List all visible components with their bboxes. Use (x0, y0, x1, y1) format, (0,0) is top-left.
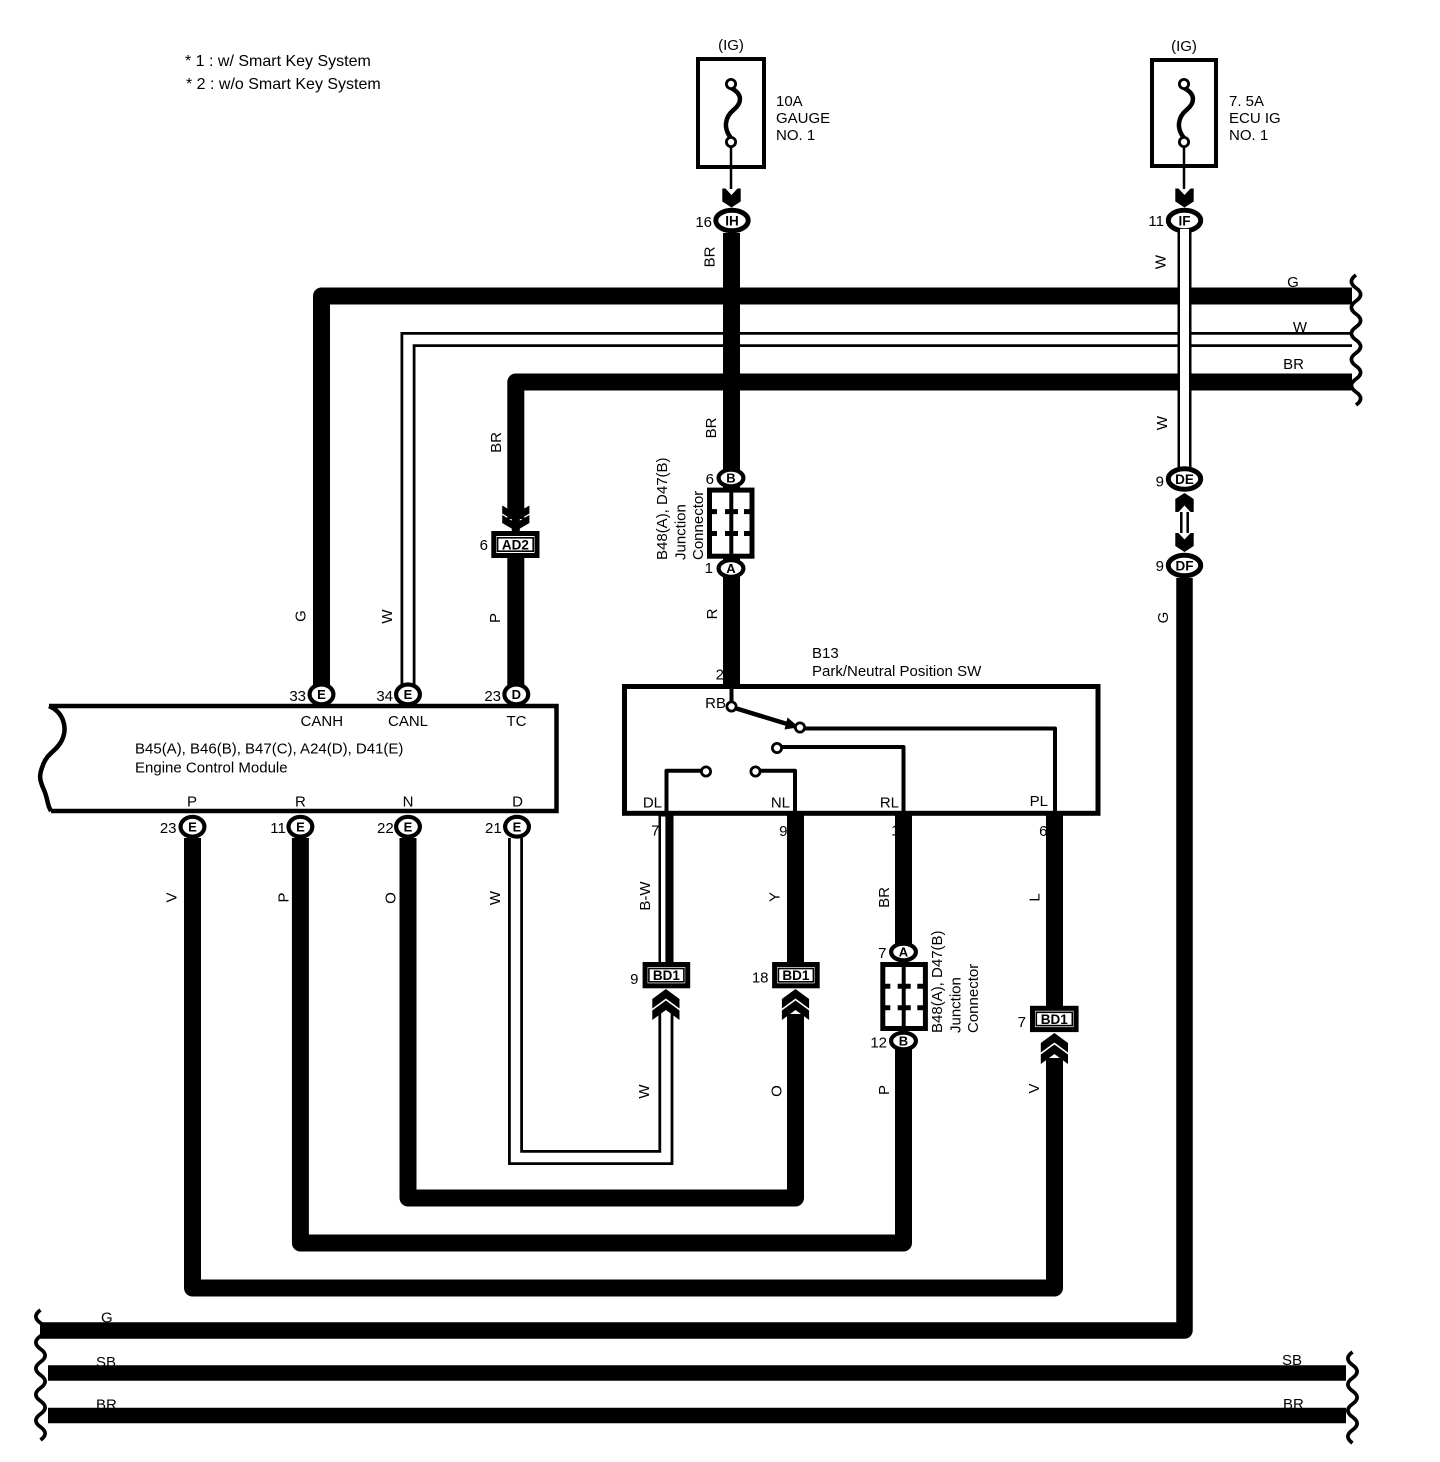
svg-text:34: 34 (376, 688, 393, 705)
svg-text:RB: RB (705, 695, 726, 712)
svg-text:7: 7 (651, 823, 659, 840)
svg-text:O: O (383, 892, 400, 904)
svg-text:G: G (1155, 612, 1172, 624)
svg-text:9: 9 (779, 823, 787, 840)
svg-text:1: 1 (705, 560, 713, 577)
svg-text:7. 5A: 7. 5A (1229, 93, 1264, 110)
wire G bus (CANH to right edge) (322, 296, 1353, 694)
wire W from IF to DE outer (1178, 231, 1192, 469)
svg-text:11: 11 (1148, 213, 1164, 230)
bus BR bottom (48, 1408, 1346, 1424)
svg-text:NL: NL (771, 795, 790, 812)
svg-text:11: 11 (270, 820, 286, 837)
svg-text:21: 21 (485, 820, 502, 837)
svg-text:9: 9 (630, 971, 638, 988)
switch contact DL (701, 767, 710, 776)
wire W bus inner white (408, 340, 1354, 693)
connector BD1 (pin 9) (645, 965, 688, 986)
wire W (pin21 to BD1) outer (516, 838, 666, 1158)
svg-text:NO. 1: NO. 1 (776, 127, 815, 144)
svg-text:E: E (404, 819, 413, 834)
arrow into BD1 (pin 9) (652, 989, 679, 1009)
connector AD2 (494, 534, 537, 556)
arrow into IH (722, 189, 740, 208)
svg-text:18: 18 (752, 970, 769, 987)
arrow into BD1 (pin 7) (1041, 1033, 1068, 1053)
svg-text:(IG): (IG) (718, 37, 744, 54)
PNP internal wire to PL (802, 729, 1055, 812)
svg-text:V: V (164, 892, 181, 902)
junction connector J1 pin A oval (719, 560, 744, 577)
svg-text:G: G (101, 1310, 113, 1327)
pin 22 E oval (396, 817, 420, 837)
svg-text:6: 6 (480, 537, 488, 554)
svg-text:Junction: Junction (673, 504, 690, 560)
svg-text:BD1: BD1 (782, 968, 809, 983)
switch blade RB (732, 707, 798, 727)
svg-text:B48(A), D47(B): B48(A), D47(B) (929, 930, 946, 1033)
connector DF (1168, 555, 1200, 575)
pin 23 E oval (bottom) (181, 817, 205, 837)
connector BD1 (pin 18) (775, 965, 818, 986)
connector DF arrow (1175, 533, 1193, 552)
svg-text:E: E (513, 819, 522, 834)
svg-text:CANL: CANL (388, 713, 428, 730)
svg-text:PL: PL (1030, 793, 1048, 810)
svg-text:P: P (187, 794, 197, 811)
PNP internal wire to DL (667, 771, 704, 811)
connector DE (1168, 469, 1200, 489)
wire BR bus (TC/AD2 to right edge) (516, 382, 1352, 519)
svg-text:B13: B13 (812, 645, 839, 662)
svg-text:23: 23 (160, 820, 177, 837)
svg-text:B-W: B-W (637, 881, 654, 911)
wire stem through AD2 arrow (512, 517, 520, 534)
svg-text:SB: SB (1282, 1352, 1302, 1369)
svg-text:(IG): (IG) (1171, 38, 1197, 55)
svg-text:W: W (1153, 254, 1170, 269)
svg-text:E: E (317, 687, 326, 702)
bus break squiggle bottom right (1348, 1352, 1357, 1443)
svg-text:P: P (487, 613, 504, 623)
svg-text:BD1: BD1 (1041, 1012, 1068, 1027)
fuse F1 element (726, 88, 740, 138)
pin 34 E oval (396, 685, 420, 705)
svg-text:ECU IG: ECU IG (1229, 110, 1281, 127)
svg-text:E: E (296, 819, 305, 834)
svg-text:BR: BR (1283, 1396, 1304, 1413)
PNP internal wire to NL (758, 771, 795, 811)
fuse F2 box (1152, 60, 1216, 166)
svg-text:10A: 10A (776, 93, 803, 110)
svg-text:D: D (512, 687, 521, 702)
svg-text:GAUGE: GAUGE (776, 110, 830, 127)
svg-text:B: B (899, 1034, 908, 1049)
svg-text:BR: BR (702, 246, 719, 267)
arrow into BD1 (pin 18) (782, 989, 809, 1009)
svg-text:W: W (487, 890, 504, 905)
svg-text:SB: SB (96, 1354, 116, 1371)
arrow into IF (1175, 189, 1193, 208)
svg-text:V: V (1026, 1083, 1043, 1093)
svg-text:22: 22 (377, 820, 394, 837)
connector IF (1168, 210, 1200, 230)
svg-text:E: E (404, 687, 413, 702)
svg-text:D: D (512, 794, 523, 811)
wire W from IF to DE inner white (1180, 229, 1189, 471)
svg-text:A: A (726, 561, 736, 576)
svg-text:CANH: CANH (301, 713, 344, 730)
svg-text:B48(A), D47(B): B48(A), D47(B) (654, 457, 671, 560)
pin 11 E oval (289, 817, 313, 837)
pin 33 E oval (310, 685, 334, 705)
svg-text:G: G (293, 610, 310, 622)
svg-text:BR: BR (703, 417, 720, 438)
svg-text:IF: IF (1179, 213, 1191, 228)
svg-text:P: P (276, 892, 293, 902)
fuse F2 element (1179, 88, 1193, 138)
svg-text:W: W (379, 609, 396, 624)
svg-text:E: E (188, 819, 197, 834)
wire BR (RL to J2) (895, 813, 912, 948)
svg-text:P: P (876, 1085, 893, 1095)
svg-text:DE: DE (1175, 472, 1194, 487)
pin 21 E oval (505, 817, 529, 837)
svg-text:* 2 : w/o Smart Key System: * 2 : w/o Smart Key System (186, 76, 381, 93)
wire V (pin23 to BD1) (193, 838, 1055, 1288)
svg-text:Engine Control Module: Engine Control Module (135, 760, 288, 777)
connector BD1 (pin 7) (1033, 1008, 1077, 1029)
svg-text:9: 9 (1156, 558, 1164, 575)
pin 23 D oval (504, 685, 528, 705)
wire O (pin22 to BD1) (408, 838, 796, 1198)
svg-text:N: N (403, 794, 414, 811)
arrow into AD2 (502, 506, 529, 522)
svg-text:B: B (726, 471, 735, 486)
svg-text:BR: BR (876, 887, 893, 908)
PNP switch B13 box (625, 687, 1099, 814)
svg-text:TC: TC (507, 713, 527, 730)
svg-text:BD1: BD1 (653, 968, 680, 983)
svg-text:W: W (636, 1084, 653, 1099)
svg-text:Connector: Connector (690, 491, 707, 560)
PNP internal wire pin2 to RB (730, 684, 734, 702)
svg-text:W: W (1293, 319, 1308, 336)
svg-text:IH: IH (725, 213, 739, 228)
svg-text:Y: Y (767, 892, 784, 902)
svg-text:7: 7 (878, 945, 886, 962)
svg-text:BR: BR (1283, 356, 1304, 373)
svg-text:A: A (899, 945, 909, 960)
svg-text:Connector: Connector (965, 964, 982, 1033)
svg-text:2: 2 (716, 667, 724, 684)
bus break squiggle top right (1351, 275, 1360, 405)
svg-text:12: 12 (870, 1035, 887, 1052)
switch contact NL (751, 767, 760, 776)
wire between DE and DF (1180, 512, 1183, 533)
fuse F1 box (698, 59, 764, 167)
wire L (PL to BD1) (1046, 813, 1063, 1008)
svg-text:Park/Neutral Position SW: Park/Neutral Position SW (812, 663, 982, 680)
junction connector J2 body (883, 965, 926, 1029)
junction connector J2 pin B oval (891, 1033, 916, 1050)
svg-text:DL: DL (643, 795, 662, 812)
svg-text:B45(A), B46(B), B47(C), A24(D): B45(A), B46(B), B47(C), A24(D), D41(E) (135, 741, 403, 758)
svg-text:O: O (769, 1085, 786, 1097)
svg-text:9: 9 (1156, 474, 1164, 491)
wire BR fuse1 to PNP pin 2 (723, 233, 740, 684)
svg-text:7: 7 (1018, 1014, 1026, 1031)
wire P (pin11 to J2) (300, 838, 903, 1243)
wire B-W (DL to BD1) (659, 813, 674, 966)
wire W bus (CANL to right edge) outer (408, 340, 1352, 695)
wire P TC segment below AD2 (507, 533, 524, 694)
junction connector J2 pin A oval (891, 944, 916, 961)
PNP internal wire to RL (780, 747, 904, 811)
switch contact moving end (795, 723, 804, 732)
wire W (pin21 to BD1) inner white (516, 835, 666, 1158)
svg-text:AD2: AD2 (502, 538, 529, 553)
connector DE arrow (1175, 493, 1193, 512)
svg-text:NO. 1: NO. 1 (1229, 127, 1268, 144)
svg-text:23: 23 (484, 688, 501, 705)
svg-text:33: 33 (289, 688, 306, 705)
svg-text:RL: RL (880, 795, 899, 812)
wire Y (NL to BD1) (787, 813, 804, 966)
svg-text:16: 16 (695, 214, 712, 231)
bus SB (48, 1365, 1346, 1381)
switch contact RB (727, 702, 736, 711)
svg-text:R: R (704, 608, 721, 619)
switch contact RL (772, 743, 781, 752)
svg-text:6: 6 (706, 471, 714, 488)
svg-text:R: R (295, 794, 306, 811)
svg-text:G: G (1287, 274, 1299, 291)
svg-text:BR: BR (96, 1397, 117, 1414)
svg-text:DF: DF (1176, 558, 1194, 573)
svg-text:BR: BR (488, 432, 505, 453)
wire G from DF to left edge (40, 578, 1185, 1331)
svg-text:Junction: Junction (948, 977, 965, 1033)
junction connector J1 pin B oval (719, 470, 744, 487)
junction connector J1 body (710, 490, 753, 556)
bus break squiggle bottom left (36, 1310, 45, 1440)
connector IH (716, 210, 748, 230)
svg-text:* 1 : w/ Smart Key System: * 1 : w/ Smart Key System (185, 53, 371, 70)
svg-text:L: L (1027, 893, 1044, 901)
ECM box (49, 706, 557, 811)
svg-text:W: W (1154, 415, 1171, 430)
